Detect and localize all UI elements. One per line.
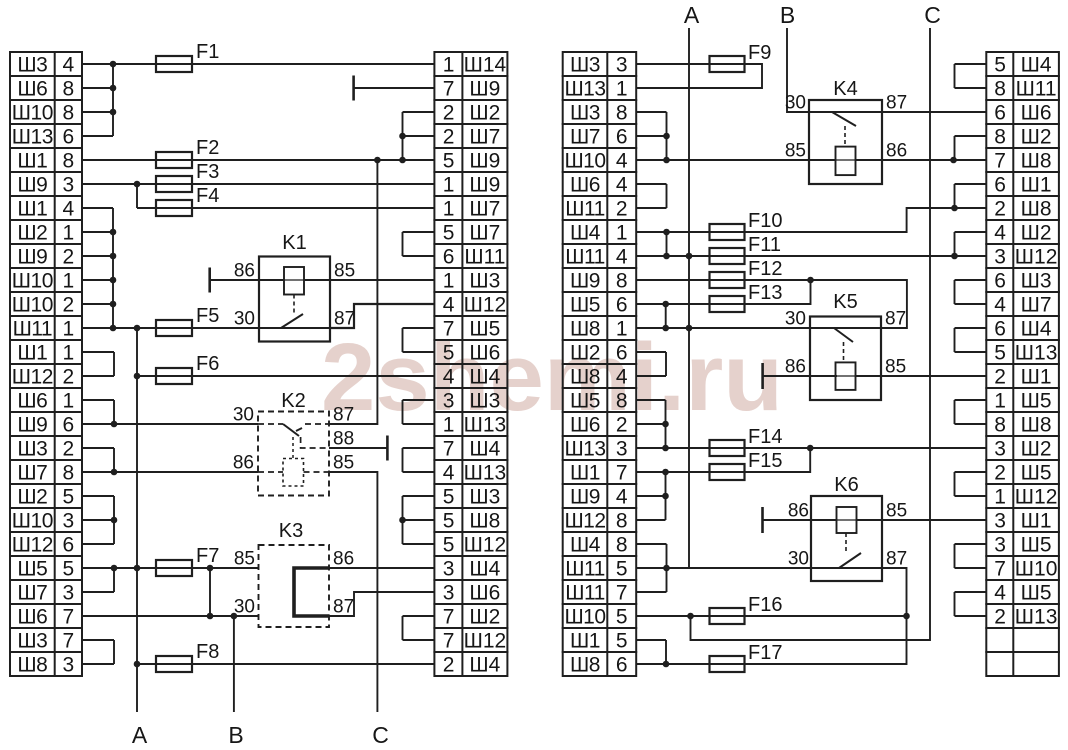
svg-text:2: 2 bbox=[616, 414, 628, 437]
svg-text:8: 8 bbox=[616, 534, 628, 557]
svg-text:87: 87 bbox=[885, 309, 906, 330]
svg-text:F7: F7 bbox=[196, 545, 219, 567]
svg-text:Ш2: Ш2 bbox=[17, 486, 47, 509]
svg-text:1: 1 bbox=[63, 390, 75, 413]
svg-text:F15: F15 bbox=[748, 450, 782, 472]
svg-text:1: 1 bbox=[63, 270, 75, 293]
svg-text:Ш11: Ш11 bbox=[565, 558, 605, 581]
svg-text:6: 6 bbox=[63, 534, 75, 557]
svg-text:Ш8: Ш8 bbox=[570, 318, 600, 341]
svg-text:8: 8 bbox=[63, 78, 75, 101]
svg-text:Ш5: Ш5 bbox=[1021, 462, 1052, 485]
svg-text:86: 86 bbox=[788, 501, 809, 522]
svg-text:2: 2 bbox=[994, 198, 1005, 221]
svg-text:Ш11: Ш11 bbox=[565, 246, 605, 269]
svg-text:Ш3: Ш3 bbox=[17, 438, 47, 461]
svg-text:5: 5 bbox=[994, 54, 1005, 77]
svg-text:Ш6: Ш6 bbox=[17, 606, 47, 629]
svg-text:85: 85 bbox=[334, 261, 355, 282]
svg-text:Ш4: Ш4 bbox=[1021, 318, 1052, 341]
svg-text:K2: K2 bbox=[281, 390, 305, 412]
svg-text:6: 6 bbox=[616, 294, 628, 317]
svg-text:F6: F6 bbox=[196, 353, 219, 375]
svg-text:Ш11: Ш11 bbox=[565, 582, 605, 605]
svg-text:Ш8: Ш8 bbox=[1021, 198, 1052, 221]
svg-text:Ш4: Ш4 bbox=[469, 366, 500, 389]
svg-text:Ш13: Ш13 bbox=[464, 414, 507, 437]
svg-text:Ш6: Ш6 bbox=[469, 342, 500, 365]
svg-text:8: 8 bbox=[994, 78, 1005, 101]
svg-text:Ш5: Ш5 bbox=[1021, 582, 1052, 605]
svg-text:Ш3: Ш3 bbox=[570, 54, 600, 77]
svg-text:2: 2 bbox=[63, 366, 75, 389]
svg-text:86: 86 bbox=[785, 357, 806, 378]
svg-text:Ш8: Ш8 bbox=[469, 510, 500, 533]
svg-text:1: 1 bbox=[616, 78, 628, 101]
svg-text:Ш4: Ш4 bbox=[1021, 54, 1052, 77]
svg-text:7: 7 bbox=[63, 630, 75, 653]
svg-text:Ш12: Ш12 bbox=[12, 534, 53, 557]
svg-text:Ш12: Ш12 bbox=[1015, 246, 1058, 269]
svg-text:Ш2: Ш2 bbox=[469, 102, 500, 125]
svg-text:7: 7 bbox=[616, 462, 628, 485]
svg-text:Ш1: Ш1 bbox=[570, 630, 600, 653]
svg-text:6: 6 bbox=[63, 414, 75, 437]
svg-text:Ш1: Ш1 bbox=[1021, 174, 1052, 197]
svg-text:Ш14: Ш14 bbox=[464, 54, 507, 77]
svg-text:8: 8 bbox=[616, 270, 628, 293]
svg-text:1: 1 bbox=[616, 318, 628, 341]
svg-text:F1: F1 bbox=[196, 41, 219, 63]
svg-text:7: 7 bbox=[443, 606, 454, 629]
svg-text:Ш3: Ш3 bbox=[469, 486, 500, 509]
svg-text:Ш1: Ш1 bbox=[570, 462, 600, 485]
svg-text:5: 5 bbox=[443, 150, 454, 173]
svg-text:Ш9: Ш9 bbox=[469, 150, 500, 173]
svg-text:K4: K4 bbox=[833, 78, 857, 100]
svg-text:Ш2: Ш2 bbox=[570, 342, 600, 365]
svg-text:Ш5: Ш5 bbox=[1021, 390, 1052, 413]
svg-text:C: C bbox=[372, 722, 389, 748]
svg-text:87: 87 bbox=[886, 93, 907, 114]
svg-text:1: 1 bbox=[443, 54, 454, 77]
svg-text:Ш4: Ш4 bbox=[570, 534, 601, 557]
svg-text:2: 2 bbox=[616, 198, 628, 221]
svg-text:5: 5 bbox=[63, 558, 75, 581]
svg-text:30: 30 bbox=[788, 549, 809, 570]
svg-text:A: A bbox=[684, 2, 700, 28]
svg-text:4: 4 bbox=[443, 366, 455, 389]
svg-text:Ш3: Ш3 bbox=[570, 102, 600, 125]
svg-text:Ш3: Ш3 bbox=[469, 390, 500, 413]
svg-text:3: 3 bbox=[994, 246, 1005, 269]
svg-text:Ш1: Ш1 bbox=[17, 342, 47, 365]
svg-text:3: 3 bbox=[63, 582, 75, 605]
svg-text:3: 3 bbox=[443, 582, 454, 605]
svg-text:Ш10: Ш10 bbox=[12, 102, 53, 125]
svg-text:Ш5: Ш5 bbox=[570, 294, 600, 317]
svg-text:Ш5: Ш5 bbox=[1021, 534, 1052, 557]
svg-text:8: 8 bbox=[63, 102, 75, 125]
svg-text:3: 3 bbox=[616, 438, 628, 461]
svg-text:Ш7: Ш7 bbox=[1021, 294, 1052, 317]
svg-text:3: 3 bbox=[616, 54, 628, 77]
svg-text:87: 87 bbox=[886, 549, 907, 570]
svg-text:Ш8: Ш8 bbox=[17, 654, 47, 677]
svg-text:86: 86 bbox=[886, 141, 907, 162]
svg-text:1: 1 bbox=[63, 342, 75, 365]
svg-text:Ш7: Ш7 bbox=[17, 582, 47, 605]
svg-text:6: 6 bbox=[994, 318, 1005, 341]
svg-text:85: 85 bbox=[785, 141, 806, 162]
svg-text:7: 7 bbox=[994, 150, 1005, 173]
svg-text:6: 6 bbox=[616, 342, 628, 365]
svg-text:1: 1 bbox=[63, 318, 75, 341]
svg-text:30: 30 bbox=[234, 309, 255, 330]
svg-text:K1: K1 bbox=[282, 232, 306, 254]
svg-text:Ш1: Ш1 bbox=[17, 198, 47, 221]
svg-text:Ш8: Ш8 bbox=[1021, 150, 1052, 173]
svg-text:Ш12: Ш12 bbox=[464, 630, 507, 653]
svg-text:7: 7 bbox=[63, 606, 75, 629]
svg-text:5: 5 bbox=[443, 342, 454, 365]
svg-text:3: 3 bbox=[994, 534, 1005, 557]
svg-text:Ш12: Ш12 bbox=[1015, 486, 1058, 509]
svg-text:B: B bbox=[780, 2, 795, 28]
svg-text:Ш5: Ш5 bbox=[570, 390, 600, 413]
svg-text:5: 5 bbox=[616, 630, 628, 653]
svg-text:Ш7: Ш7 bbox=[469, 198, 500, 221]
svg-text:86: 86 bbox=[233, 453, 254, 474]
svg-text:30: 30 bbox=[234, 597, 255, 618]
svg-text:87: 87 bbox=[333, 597, 354, 618]
svg-text:Ш13: Ш13 bbox=[12, 126, 53, 149]
svg-text:8: 8 bbox=[63, 150, 75, 173]
svg-text:87: 87 bbox=[334, 309, 355, 330]
svg-text:Ш13: Ш13 bbox=[1015, 342, 1058, 365]
svg-text:Ш3: Ш3 bbox=[469, 270, 500, 293]
svg-text:1: 1 bbox=[443, 414, 454, 437]
svg-text:6: 6 bbox=[443, 246, 454, 269]
svg-text:Ш11: Ш11 bbox=[13, 318, 53, 341]
svg-text:2: 2 bbox=[443, 126, 454, 149]
svg-text:A: A bbox=[132, 722, 148, 748]
svg-text:Ш10: Ш10 bbox=[564, 150, 605, 173]
svg-text:4: 4 bbox=[994, 582, 1006, 605]
svg-text:Ш7: Ш7 bbox=[17, 462, 47, 485]
svg-text:Ш13: Ш13 bbox=[564, 438, 605, 461]
svg-text:1: 1 bbox=[616, 222, 628, 245]
svg-text:85: 85 bbox=[333, 453, 354, 474]
svg-text:2: 2 bbox=[994, 366, 1005, 389]
svg-text:F8: F8 bbox=[196, 641, 219, 663]
svg-text:6: 6 bbox=[994, 270, 1005, 293]
svg-text:Ш7: Ш7 bbox=[570, 126, 600, 149]
svg-text:8: 8 bbox=[63, 462, 75, 485]
svg-text:30: 30 bbox=[233, 405, 254, 426]
svg-text:K6: K6 bbox=[834, 474, 858, 496]
svg-text:F10: F10 bbox=[748, 210, 782, 232]
svg-text:F14: F14 bbox=[748, 426, 782, 448]
svg-text:2: 2 bbox=[994, 606, 1005, 629]
svg-text:1: 1 bbox=[443, 174, 454, 197]
svg-text:Ш3: Ш3 bbox=[1021, 270, 1052, 293]
svg-text:2: 2 bbox=[63, 294, 75, 317]
svg-text:2shemi.ru: 2shemi.ru bbox=[321, 324, 783, 431]
svg-text:Ш9: Ш9 bbox=[570, 486, 600, 509]
svg-text:7: 7 bbox=[443, 318, 454, 341]
svg-text:7: 7 bbox=[443, 630, 454, 653]
svg-text:Ш8: Ш8 bbox=[570, 654, 600, 677]
svg-text:Ш9: Ш9 bbox=[17, 414, 47, 437]
svg-text:7: 7 bbox=[994, 558, 1005, 581]
svg-text:3: 3 bbox=[63, 174, 75, 197]
svg-text:1: 1 bbox=[994, 390, 1005, 413]
svg-text:30: 30 bbox=[785, 93, 806, 114]
svg-text:F3: F3 bbox=[196, 161, 219, 183]
svg-text:Ш11: Ш11 bbox=[1016, 78, 1057, 101]
svg-text:1: 1 bbox=[443, 198, 454, 221]
svg-text:Ш12: Ш12 bbox=[464, 534, 507, 557]
svg-text:Ш10: Ш10 bbox=[12, 510, 53, 533]
svg-text:3: 3 bbox=[63, 654, 75, 677]
svg-text:Ш2: Ш2 bbox=[1021, 222, 1052, 245]
svg-text:6: 6 bbox=[63, 126, 75, 149]
svg-text:Ш6: Ш6 bbox=[570, 414, 600, 437]
svg-text:4: 4 bbox=[443, 294, 455, 317]
svg-text:86: 86 bbox=[333, 549, 354, 570]
svg-text:Ш6: Ш6 bbox=[17, 390, 47, 413]
svg-text:Ш5: Ш5 bbox=[469, 318, 500, 341]
svg-text:Ш9: Ш9 bbox=[469, 78, 500, 101]
svg-text:86: 86 bbox=[234, 261, 255, 282]
svg-text:Ш10: Ш10 bbox=[12, 270, 53, 293]
svg-text:4: 4 bbox=[63, 198, 75, 221]
svg-text:6: 6 bbox=[616, 126, 628, 149]
svg-text:7: 7 bbox=[443, 78, 454, 101]
svg-text:4: 4 bbox=[616, 174, 628, 197]
svg-text:Ш10: Ш10 bbox=[1015, 558, 1058, 581]
svg-text:F9: F9 bbox=[748, 42, 771, 64]
svg-text:Ш10: Ш10 bbox=[12, 294, 53, 317]
svg-text:F5: F5 bbox=[196, 305, 219, 327]
svg-text:Ш1: Ш1 bbox=[17, 150, 47, 173]
svg-text:Ш9: Ш9 bbox=[17, 174, 47, 197]
svg-text:Ш9: Ш9 bbox=[469, 174, 500, 197]
svg-text:4: 4 bbox=[616, 486, 628, 509]
svg-text:Ш11: Ш11 bbox=[464, 246, 505, 269]
svg-text:Ш12: Ш12 bbox=[564, 510, 605, 533]
svg-text:F2: F2 bbox=[196, 137, 219, 159]
svg-text:6: 6 bbox=[994, 102, 1005, 125]
svg-text:Ш6: Ш6 bbox=[469, 582, 500, 605]
svg-text:Ш7: Ш7 bbox=[469, 126, 500, 149]
svg-text:87: 87 bbox=[333, 405, 354, 426]
svg-text:5: 5 bbox=[63, 486, 75, 509]
svg-text:8: 8 bbox=[616, 102, 628, 125]
svg-text:K5: K5 bbox=[833, 291, 857, 313]
svg-text:Ш9: Ш9 bbox=[17, 246, 47, 269]
svg-text:Ш2: Ш2 bbox=[17, 222, 47, 245]
svg-text:Ш2: Ш2 bbox=[469, 606, 500, 629]
svg-text:Ш6: Ш6 bbox=[570, 174, 600, 197]
svg-text:5: 5 bbox=[616, 606, 628, 629]
svg-text:4: 4 bbox=[994, 294, 1006, 317]
svg-text:Ш11: Ш11 bbox=[565, 198, 605, 221]
svg-text:Ш2: Ш2 bbox=[1021, 126, 1052, 149]
svg-text:30: 30 bbox=[785, 309, 806, 330]
svg-text:3: 3 bbox=[63, 510, 75, 533]
svg-text:K3: K3 bbox=[279, 520, 303, 542]
svg-text:6: 6 bbox=[994, 174, 1005, 197]
svg-text:Ш13: Ш13 bbox=[564, 78, 605, 101]
svg-text:2: 2 bbox=[443, 654, 454, 677]
svg-text:Ш6: Ш6 bbox=[17, 78, 47, 101]
svg-text:F12: F12 bbox=[748, 258, 782, 280]
svg-text:1: 1 bbox=[63, 222, 75, 245]
svg-text:85: 85 bbox=[885, 357, 906, 378]
svg-text:Ш5: Ш5 bbox=[17, 558, 47, 581]
svg-text:Ш9: Ш9 bbox=[570, 270, 600, 293]
svg-text:1: 1 bbox=[443, 270, 454, 293]
svg-text:85: 85 bbox=[886, 501, 907, 522]
svg-text:Ш2: Ш2 bbox=[1021, 438, 1052, 461]
svg-text:2: 2 bbox=[443, 102, 454, 125]
svg-text:Ш13: Ш13 bbox=[1015, 606, 1058, 629]
svg-text:C: C bbox=[924, 2, 941, 28]
svg-text:Ш4: Ш4 bbox=[469, 558, 500, 581]
svg-text:Ш8: Ш8 bbox=[570, 366, 600, 389]
svg-text:3: 3 bbox=[443, 390, 454, 413]
svg-text:5: 5 bbox=[443, 222, 454, 245]
svg-text:Ш3: Ш3 bbox=[17, 630, 47, 653]
svg-text:F16: F16 bbox=[748, 594, 782, 616]
svg-text:88: 88 bbox=[333, 429, 354, 450]
svg-text:7: 7 bbox=[443, 438, 454, 461]
svg-text:3: 3 bbox=[994, 510, 1005, 533]
svg-text:8: 8 bbox=[994, 414, 1005, 437]
svg-text:5: 5 bbox=[443, 510, 454, 533]
svg-text:Ш3: Ш3 bbox=[17, 54, 47, 77]
svg-text:4: 4 bbox=[63, 54, 75, 77]
svg-text:5: 5 bbox=[616, 558, 628, 581]
svg-text:Ш8: Ш8 bbox=[1021, 414, 1052, 437]
svg-text:4: 4 bbox=[616, 246, 628, 269]
svg-text:4: 4 bbox=[616, 150, 628, 173]
svg-text:6: 6 bbox=[616, 654, 628, 677]
svg-text:3: 3 bbox=[443, 558, 454, 581]
svg-text:Ш12: Ш12 bbox=[464, 294, 507, 317]
svg-text:F17: F17 bbox=[748, 642, 782, 664]
svg-text:Ш6: Ш6 bbox=[1021, 102, 1052, 125]
svg-text:F4: F4 bbox=[196, 185, 219, 207]
svg-text:2: 2 bbox=[63, 246, 75, 269]
svg-text:4: 4 bbox=[994, 222, 1006, 245]
svg-text:85: 85 bbox=[234, 549, 255, 570]
svg-text:4: 4 bbox=[616, 366, 628, 389]
svg-text:5: 5 bbox=[443, 486, 454, 509]
svg-text:Ш4: Ш4 bbox=[469, 438, 500, 461]
svg-text:Ш10: Ш10 bbox=[564, 606, 605, 629]
svg-text:7: 7 bbox=[616, 582, 628, 605]
svg-text:2: 2 bbox=[63, 438, 75, 461]
svg-text:8: 8 bbox=[994, 126, 1005, 149]
svg-text:5: 5 bbox=[443, 534, 454, 557]
svg-text:Ш4: Ш4 bbox=[469, 654, 500, 677]
svg-text:1: 1 bbox=[994, 486, 1005, 509]
svg-text:F11: F11 bbox=[748, 234, 781, 256]
svg-text:Ш7: Ш7 bbox=[469, 222, 500, 245]
svg-text:5: 5 bbox=[994, 342, 1005, 365]
svg-text:Ш1: Ш1 bbox=[1021, 366, 1052, 389]
svg-text:3: 3 bbox=[994, 438, 1005, 461]
svg-text:Ш1: Ш1 bbox=[1021, 510, 1052, 533]
svg-text:B: B bbox=[228, 722, 243, 748]
svg-text:Ш13: Ш13 bbox=[464, 462, 507, 485]
svg-text:Ш12: Ш12 bbox=[12, 366, 53, 389]
svg-text:2: 2 bbox=[994, 462, 1005, 485]
svg-text:8: 8 bbox=[616, 510, 628, 533]
svg-text:F13: F13 bbox=[748, 282, 782, 304]
svg-text:Ш4: Ш4 bbox=[570, 222, 601, 245]
svg-text:8: 8 bbox=[616, 390, 628, 413]
svg-text:4: 4 bbox=[443, 462, 455, 485]
